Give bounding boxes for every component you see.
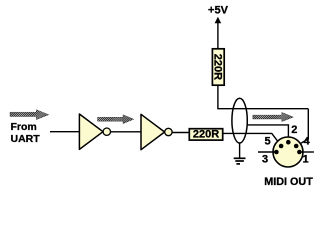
- svg-text:From: From: [11, 121, 37, 133]
- svg-text:220R: 220R: [193, 129, 219, 141]
- hatched arrow (From UART): [10, 110, 49, 120]
- pin 1 stub: [299, 151, 314, 153]
- svg-text:2: 2: [291, 124, 297, 136]
- MIDI connector J1 body: [273, 137, 303, 167]
- pin 5: [279, 144, 284, 149]
- pin 3: [274, 150, 279, 155]
- hatched arrow between inverters: [98, 115, 134, 124]
- pin 3 stub: [258, 151, 276, 153]
- wire UART to U1: [50, 131, 80, 133]
- wire +5V to R1: [217, 22, 219, 49]
- svg-text:MIDI OUT: MIDI OUT: [264, 176, 313, 188]
- inverter U1: [79, 114, 103, 149]
- U1 bubble: [103, 128, 110, 135]
- cable shield ellipse: [232, 98, 247, 143]
- wire U1 to U2: [111, 131, 142, 133]
- wire R2 through shield to pin 5: [223, 133, 281, 145]
- svg-text:1: 1: [303, 153, 309, 165]
- svg-text:5: 5: [264, 135, 270, 147]
- svg-text:220R: 220R: [211, 54, 223, 80]
- wire U2 to R2: [172, 132, 189, 134]
- svg-text:UART: UART: [11, 133, 41, 145]
- wire shield to pin 2: [247, 125, 289, 142]
- wire down right side to pin 4: [298, 109, 309, 146]
- shield ground wire: [239, 143, 241, 158]
- inverter U2: [141, 114, 165, 149]
- svg-text:+5V: +5V: [208, 5, 229, 17]
- hatched arrow (to MIDI cable): [253, 112, 294, 121]
- resistor R2 220R (horizontal): [189, 129, 222, 141]
- pin 2: [286, 140, 291, 145]
- ground symbol: [234, 158, 246, 164]
- +5V arrowhead: [215, 17, 222, 23]
- svg-text:3: 3: [262, 153, 268, 165]
- U2 bubble: [165, 128, 172, 135]
- pin 1: [297, 150, 302, 155]
- pin 4: [294, 144, 299, 149]
- svg-text:4: 4: [304, 136, 311, 148]
- wire R1 down and across to right: [218, 86, 308, 109]
- resistor R1 220R (vertical): [211, 49, 224, 85]
